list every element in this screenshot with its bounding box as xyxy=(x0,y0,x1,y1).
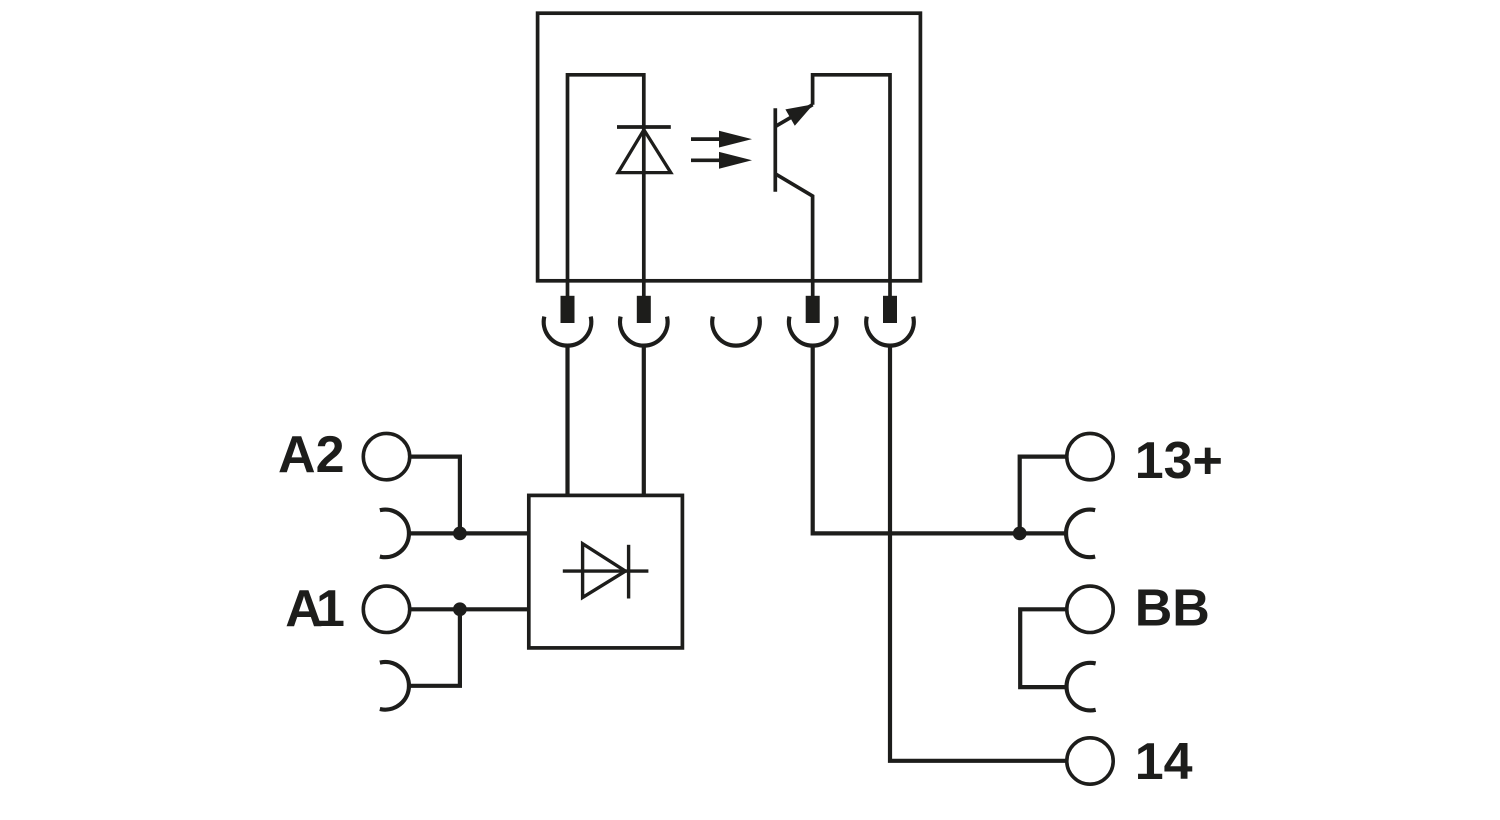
diode (polarity protection) cathode bar xyxy=(627,545,630,599)
svg-text:BB: BB xyxy=(1135,580,1210,638)
svg-text:14: 14 xyxy=(1135,733,1193,791)
socket A1 lower (opens left) xyxy=(380,662,409,710)
terminal circle A2 xyxy=(363,433,409,479)
svg-text:13+: 13+ xyxy=(1135,432,1223,490)
light arrow 2 xyxy=(691,152,752,169)
socket contact 4 xyxy=(789,317,837,346)
socket BB (opens right) xyxy=(1067,663,1096,711)
socket 13+ (opens right) xyxy=(1066,510,1095,558)
wire: socket1 down to input block xyxy=(565,345,569,495)
phototransistor Q1 collector lead with arrow xyxy=(775,104,813,126)
svg-text:A2: A2 xyxy=(278,426,344,484)
wire: A2 circle to junction xyxy=(410,457,460,534)
socket contact 3 (unused, middle) xyxy=(712,317,760,346)
light arrow 1 xyxy=(691,131,752,148)
wire: socket2 down to input block xyxy=(642,345,646,495)
wire: collector to housing top rail xyxy=(813,75,890,281)
junction: A1 node xyxy=(453,602,467,616)
terminal circle 13+ xyxy=(1067,433,1113,479)
socket contact 5 xyxy=(866,317,914,346)
pin contact 5 (x=890) xyxy=(883,281,897,323)
socket contact 2 xyxy=(620,317,668,346)
phototransistor Q1 emitter lead xyxy=(775,174,812,281)
LED D1 cathode bar xyxy=(617,125,671,129)
terminal circle A1 xyxy=(363,586,409,632)
terminal circle 14 xyxy=(1067,738,1113,784)
input protection block xyxy=(529,495,683,648)
terminal circle BB xyxy=(1067,586,1113,632)
wire: A2 socket to input block xyxy=(409,531,529,535)
wire: socket5 down and right to terminal 14 xyxy=(890,345,1067,761)
wire: socket4 down and right to 13+ node xyxy=(813,345,1066,533)
wire: A1 junction down to lower socket xyxy=(409,609,460,686)
phototransistor Q1 base bar xyxy=(773,108,777,192)
junction: A2 node xyxy=(453,527,467,541)
diode (polarity protection) line xyxy=(563,569,649,572)
wire: 13+ node up to terminal 13+ xyxy=(1020,457,1067,534)
pin contact 4 (x=812.7) xyxy=(806,281,820,323)
diode (polarity protection) triangle xyxy=(583,544,626,598)
junction: 13+ node xyxy=(1013,527,1027,541)
wire: LED anode branch (pin1 column up, across, down pin2 column) xyxy=(568,75,644,281)
pin contact 2 (x=643.8) xyxy=(637,281,651,323)
LED D1 triangle xyxy=(618,130,671,173)
optocoupler U1 housing xyxy=(538,13,921,281)
pin contact 1 (x=567.5) xyxy=(561,281,575,323)
wire: BB bracket xyxy=(1020,609,1067,687)
svg-text:A1: A1 xyxy=(285,580,345,638)
socket A2 (opens left) xyxy=(380,510,409,558)
wire: A1 circle to input block xyxy=(410,607,529,611)
socket contact 1 xyxy=(544,317,592,346)
